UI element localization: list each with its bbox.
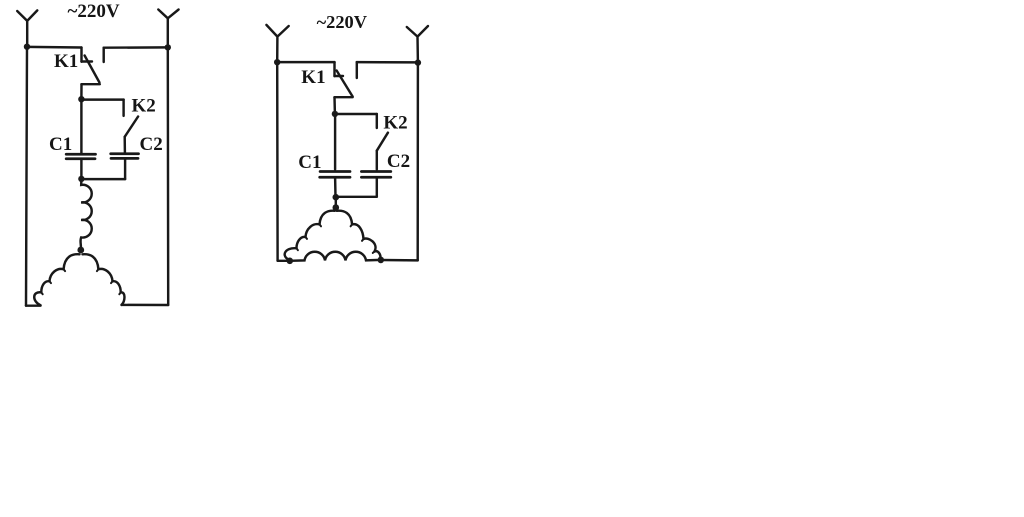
svg-text:C2: C2 — [387, 151, 410, 172]
wire node B to delta apex (right circuit) — [335, 197, 337, 207]
cusp hooks right arm (right circuit) — [351, 224, 375, 253]
terminal fork left (left circuit) — [17, 10, 37, 46]
wire node A to C1 — [80, 99, 82, 153]
wire K1 to node A (right circuit) — [333, 97, 336, 114]
terminal fork right (right circuit) — [407, 26, 428, 62]
capacitor C1 (right circuit) — [320, 172, 350, 178]
cusp hooks left arm (right circuit) — [297, 224, 322, 250]
svg-text:C1: C1 — [49, 134, 72, 155]
wire K2 to C2 — [123, 137, 126, 153]
winding vertical coil (left circuit) — [80, 179, 91, 250]
wire C2 down (right circuit) — [376, 177, 378, 197]
switch K1 (left circuit) — [82, 48, 104, 85]
svg-text:C1: C1 — [298, 152, 321, 173]
svg-text:K1: K1 — [301, 67, 325, 88]
node A dot (right circuit) — [332, 111, 338, 117]
wire left vertical (right circuit) — [276, 62, 279, 261]
switch K2 (left circuit) — [124, 100, 139, 137]
junction dot left top (left circuit) — [24, 44, 30, 50]
cusp hooks right arm (left circuit) — [97, 269, 121, 294]
junction dot right top (left circuit) — [165, 44, 171, 50]
corner dot bottom-right (right circuit) — [378, 257, 385, 264]
wire C2 down — [124, 158, 126, 179]
wire node A to K2 stub — [81, 98, 123, 100]
svg-text:~220V: ~220V — [317, 12, 368, 32]
junction dot left top (right circuit) — [274, 59, 280, 65]
wire top right segment (left circuit) — [104, 46, 168, 49]
wire left vertical (left circuit) — [26, 47, 27, 306]
capacitor C1 (left circuit) — [66, 154, 95, 159]
node A dot (left circuit) — [78, 96, 84, 102]
corner dot bottom-left (right circuit) — [287, 258, 294, 265]
svg-text:C2: C2 — [140, 134, 163, 155]
junction dot right top (right circuit) — [415, 59, 421, 65]
terminal fork right (left circuit) — [158, 10, 178, 48]
switch K1 (right circuit) — [335, 62, 357, 97]
winding bottom (right circuit) — [290, 252, 381, 261]
switch K2 (right circuit) — [377, 114, 388, 151]
winding right arm (left circuit) — [83, 254, 125, 305]
wire node A to C1 (right circuit) — [334, 114, 336, 170]
wire node B to C2 bottom — [81, 178, 125, 180]
wire bottom left corner (right circuit) — [278, 260, 290, 262]
wire right vertical (left circuit) — [167, 47, 170, 305]
delta apex dot (right circuit) — [333, 204, 340, 211]
terminal fork left (right circuit) — [266, 25, 288, 62]
svg-text:K2: K2 — [383, 113, 407, 134]
wire node A to K2 stub (right circuit) — [335, 113, 377, 115]
wire right vertical (right circuit) — [416, 63, 419, 261]
wire bottom right (left circuit) — [122, 304, 169, 307]
wire top left segment (right circuit) — [277, 61, 334, 63]
winding left arm (left circuit) — [34, 254, 79, 305]
wire bottom left (left circuit) — [26, 304, 41, 306]
svg-text:K1: K1 — [54, 51, 78, 72]
svg-text:~220V: ~220V — [68, 1, 120, 22]
wire C1 to node B (right circuit) — [334, 177, 337, 197]
capacitor C2 (left circuit) — [111, 154, 139, 159]
wire top right segment (right circuit) — [357, 61, 418, 64]
wire K1 to node A — [80, 84, 83, 99]
node B dot (left circuit) — [78, 176, 84, 182]
wire bottom right corner (right circuit) — [381, 259, 418, 262]
wire C1 to node B — [80, 159, 82, 179]
wire K2 to C2 (right circuit) — [376, 151, 378, 170]
svg-text:K2: K2 — [132, 96, 156, 117]
wire node B to C2 bottom (right circuit) — [336, 196, 377, 198]
cusp hooks left arm (left circuit) — [41, 269, 65, 294]
node B dot (right circuit) — [333, 194, 340, 201]
star point dot (left circuit) — [77, 247, 84, 254]
wire top left segment (left circuit) — [27, 46, 82, 49]
capacitor C2 (right circuit) — [361, 172, 390, 178]
winding left arm (right circuit) — [285, 211, 335, 260]
winding right arm (right circuit) — [337, 211, 381, 260]
